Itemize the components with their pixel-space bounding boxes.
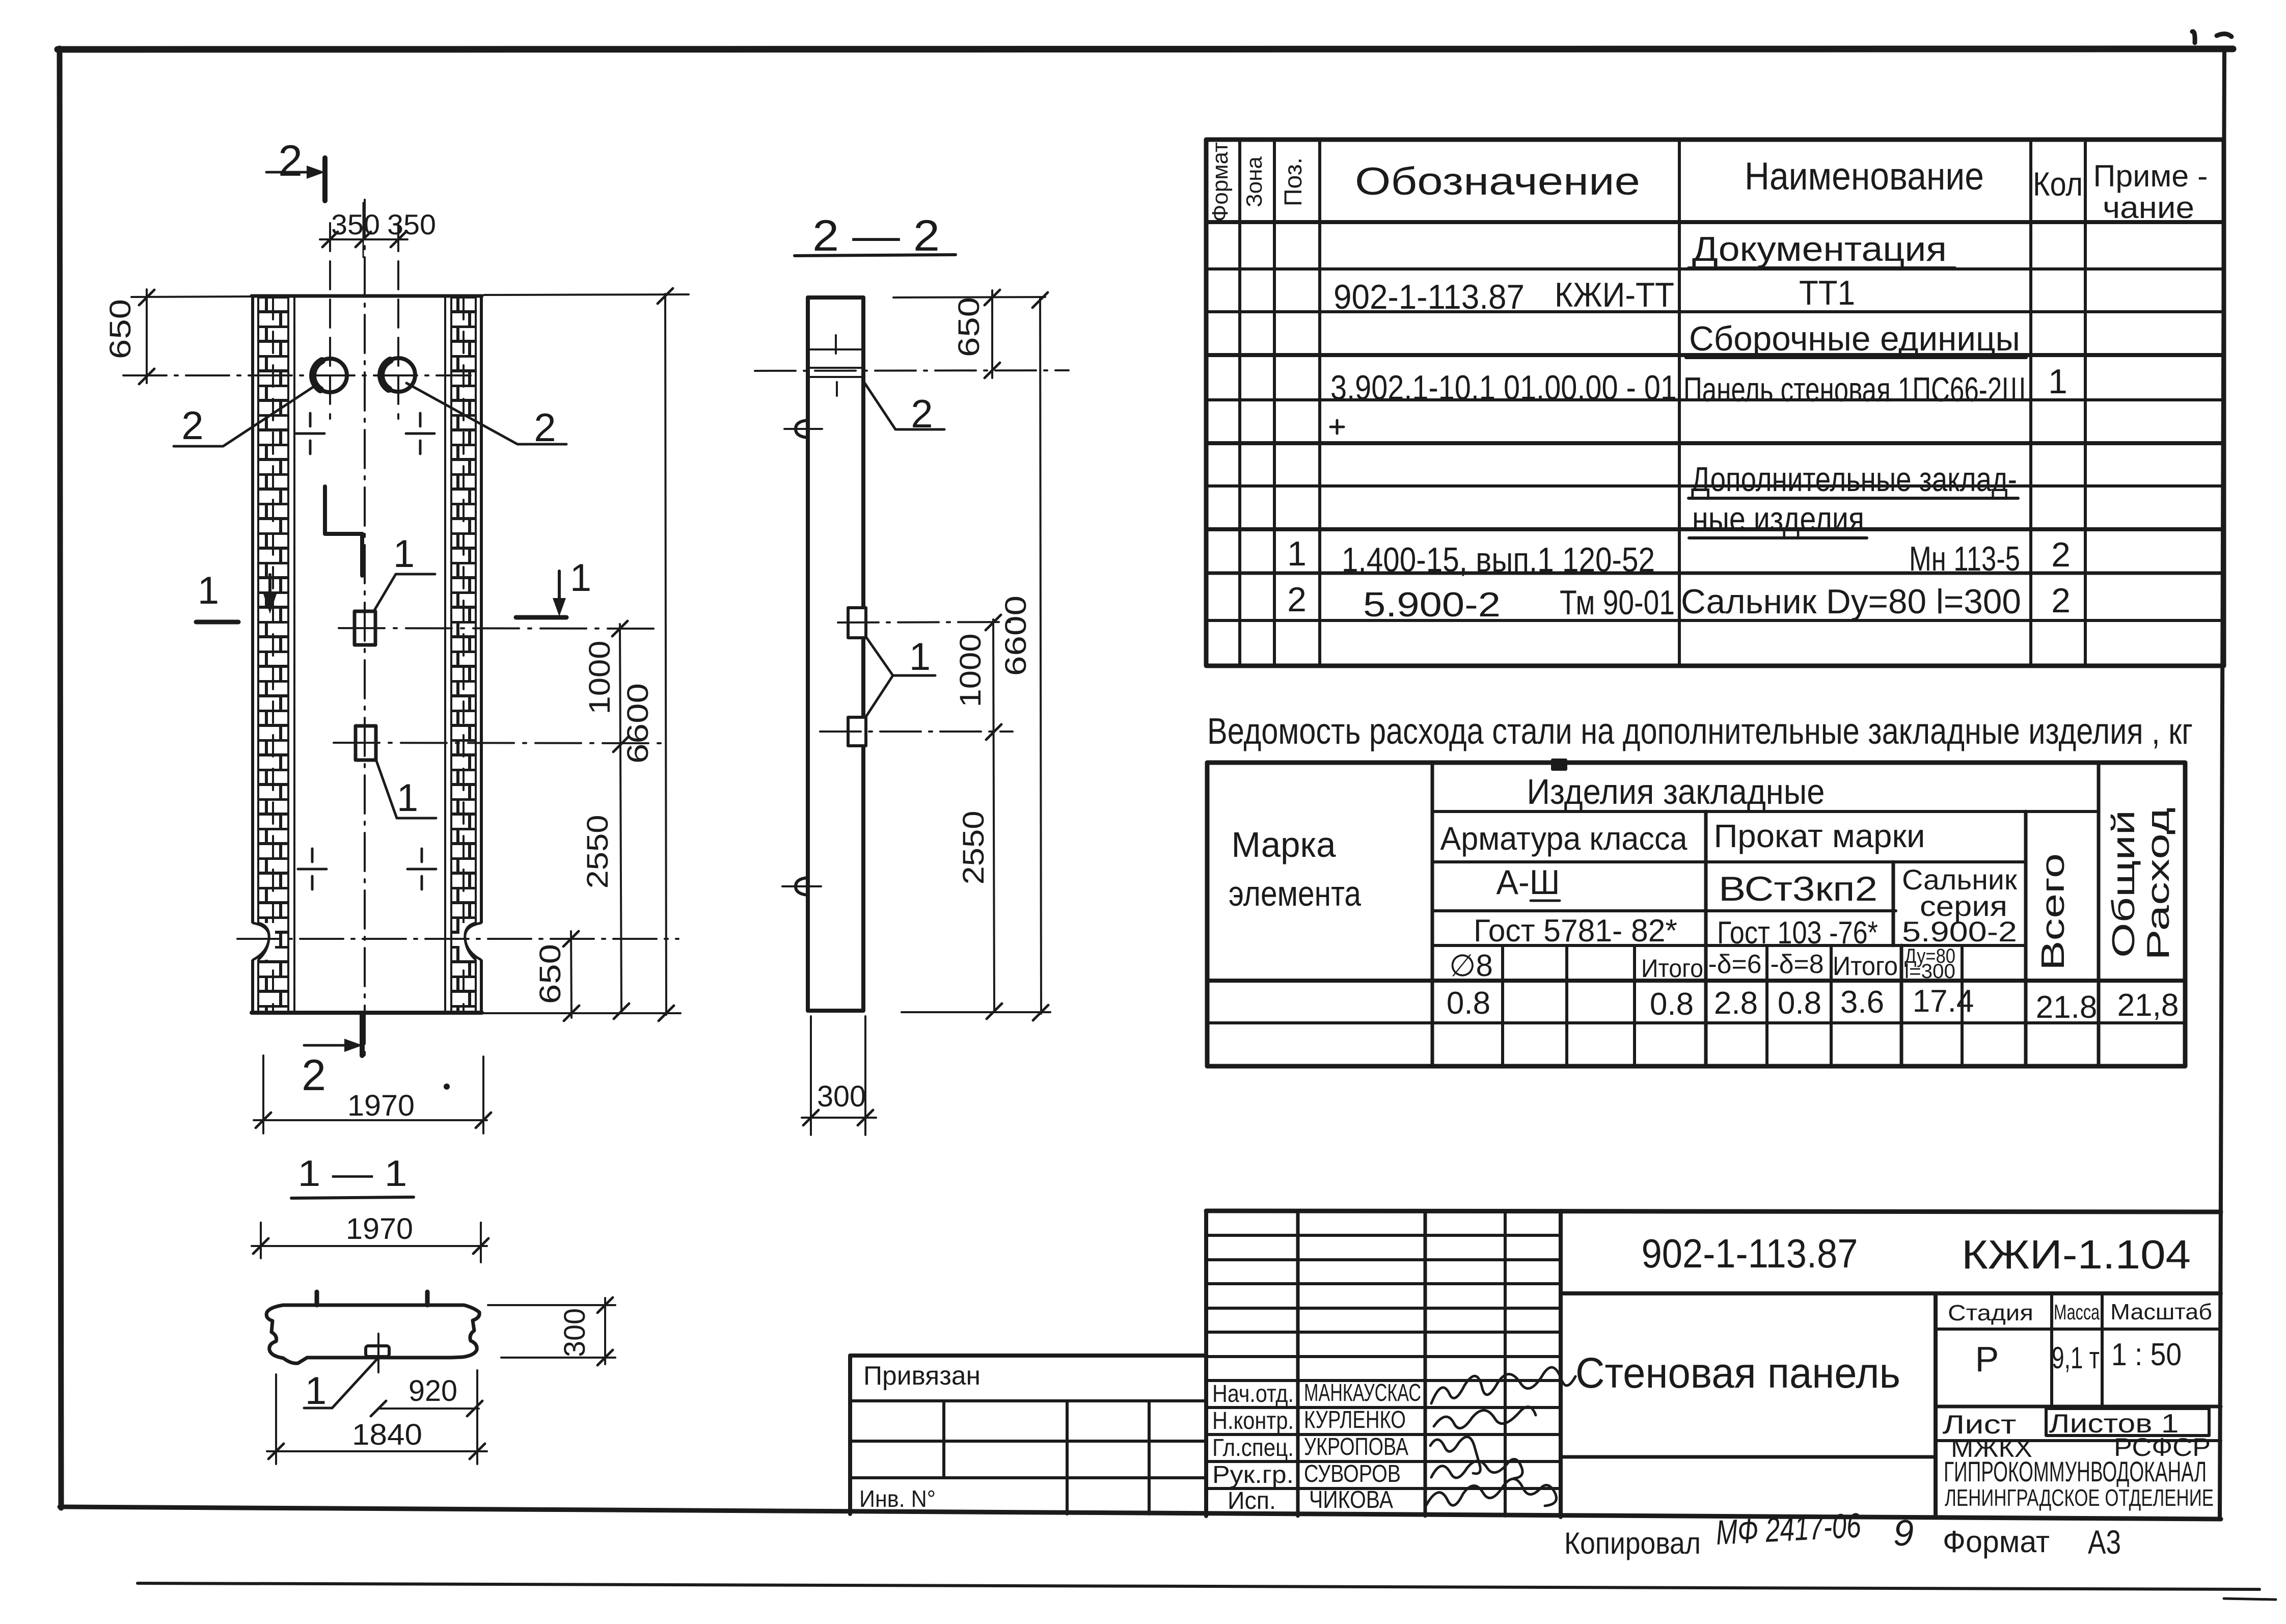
- svg-text:2: 2: [181, 403, 203, 448]
- svg-text:Панель стеновая 1ПС66-2Ш: Панель стеновая 1ПС66-2Ш: [1683, 370, 2026, 409]
- steel col: Сальник box left / Итого-Ду divider: [1893, 862, 1901, 1066]
- svg-text:Масштаб: Масштаб: [2110, 1300, 2212, 1324]
- left rib inner line: [293, 296, 295, 1013]
- left rib notch (white-out): [249, 923, 275, 960]
- svg-text:Расход: Расход: [2141, 807, 2176, 960]
- steel table outer box: [1207, 763, 2185, 1066]
- panel vertical axis (dash-dot): [364, 200, 366, 1059]
- signature Манкаускас: [1431, 1367, 1575, 1403]
- svg-text:9: 9: [1893, 1513, 1914, 1554]
- svg-text:350: 350: [387, 208, 436, 240]
- panel top edge extension to 6600 line: [484, 294, 689, 295]
- svg-text:Р: Р: [1975, 1339, 1999, 1379]
- svg-text:1840: 1840: [352, 1418, 422, 1451]
- left rib line 2: [257, 296, 259, 1013]
- spec table column line: Поз: [1318, 140, 1321, 666]
- 2-2 dim 6600 ticks: [1032, 292, 1048, 1020]
- steel subcol: Итого left: [1633, 945, 1636, 1066]
- svg-text:2550: 2550: [957, 811, 990, 885]
- svg-text:6600: 6600: [999, 596, 1032, 676]
- 2-2 dim 1000/2550 ticks: [986, 615, 1002, 1019]
- 1-1 embed plate: [366, 1346, 389, 1357]
- centre mark lower-right: [407, 849, 436, 889]
- centre mark upper-left: [296, 413, 324, 454]
- svg-text:1: 1: [570, 556, 591, 600]
- svg-text:650: 650: [534, 944, 567, 1004]
- svg-text:ные изделия: ные изделия: [1692, 500, 1864, 538]
- svg-text:1970: 1970: [346, 1212, 413, 1246]
- привязан block outer: [850, 1356, 1206, 1514]
- svg-text:5.900-2: 5.900-2: [1902, 915, 2017, 948]
- dim 1000/2550 ticks: [612, 621, 629, 1019]
- привязан block column b: [1066, 1401, 1069, 1514]
- svg-text:1: 1: [393, 532, 415, 576]
- 1-1 dim 300: extensions: [488, 1305, 615, 1358]
- left rib centre dashed line: [272, 298, 274, 1011]
- right rib line 3: [475, 296, 477, 1013]
- svg-text:5.900-2: 5.900-2: [1363, 585, 1501, 624]
- svg-text:Итого: Итого: [1641, 954, 1703, 983]
- 1-1 dim 1970 ticks: [253, 1238, 488, 1254]
- section 2 marker bottom: bar: [360, 1013, 365, 1055]
- svg-text:Документация: Документация: [1692, 230, 1947, 268]
- svg-text:Сборочные единицы: Сборочные единицы: [1689, 319, 2020, 358]
- dim 650 top-left: vertical line: [146, 289, 148, 383]
- svg-text:чание: чание: [2103, 191, 2194, 225]
- svg-text:1: 1: [1287, 534, 1307, 573]
- 2-2 sleeve ticks: [836, 335, 837, 396]
- svg-text:∅8: ∅8: [1449, 949, 1493, 983]
- right rib notch outline: [465, 923, 481, 960]
- 1-1 dim 300 vertical line: [604, 1298, 606, 1364]
- dim 1000/2550 line (front): [620, 624, 621, 1011]
- svg-text:Формат: Формат: [1943, 1525, 2050, 1559]
- svg-text:МАНКАУСКАС: МАНКАУСКАС: [1304, 1379, 1421, 1406]
- svg-text:КУРЛЕНКО: КУРЛЕНКО: [1304, 1406, 1406, 1433]
- svg-text:-δ=6: -δ=6: [1708, 950, 1762, 979]
- spec table header bottom line: [1206, 220, 2224, 224]
- svg-text:2 — 2: 2 — 2: [812, 211, 940, 260]
- svg-text:Сальник Dу=80 l=300: Сальник Dу=80 l=300: [1681, 582, 2021, 621]
- svg-text:2: 2: [2051, 535, 2071, 574]
- title box: Масса/Масштаб divider: [2101, 1293, 2104, 1406]
- 1-1 dim 1840 left extension: [275, 1374, 277, 1464]
- 2-2 dim 300 ticks: [803, 1110, 873, 1125]
- dim 350 middle extension: [363, 203, 364, 257]
- centre mark lower-left: [298, 849, 326, 889]
- svg-text:1000: 1000: [583, 641, 616, 715]
- steel col: Арматура/Прокат divider: [1704, 811, 1708, 1066]
- 2-2 dim 650 ticks: [985, 290, 1000, 378]
- 2-2 right tab 1: [848, 608, 866, 638]
- svg-text:УКРОПОВА: УКРОПОВА: [1304, 1433, 1408, 1460]
- 1-1 plate centre line: [377, 1334, 379, 1372]
- hole circle left crescent: [313, 361, 322, 390]
- svg-text:Кол: Кол: [2033, 165, 2083, 203]
- svg-text:Гл.спец.: Гл.спец.: [1212, 1434, 1294, 1461]
- signature Укропова: [1430, 1437, 1480, 1474]
- section 2 marker top: bar: [322, 158, 328, 201]
- spec table column line: Обозначение/Наименование: [1678, 140, 1681, 666]
- svg-text:920: 920: [409, 1374, 457, 1408]
- svg-text:Исп.: Исп.: [1228, 1487, 1276, 1514]
- svg-text:Гост 103 -76*: Гост 103 -76*: [1717, 915, 1878, 951]
- dim 1970 ticks: [256, 1113, 491, 1128]
- steel subcol: -δ=8 / Итого divider: [1830, 945, 1833, 1066]
- axis through square 2: [334, 743, 662, 743]
- svg-text:Зона: Зона: [1242, 156, 1267, 207]
- svg-text:Поз.: Поз.: [1280, 157, 1307, 206]
- svg-text:ЧИКОВА: ЧИКОВА: [1309, 1486, 1393, 1513]
- 2-2 lower embed bump: [796, 878, 808, 895]
- 1-1 dim 920 line: [378, 1408, 479, 1410]
- 1-1 dim 1840 ticks: [268, 1444, 485, 1459]
- svg-text:2: 2: [911, 391, 933, 436]
- svg-text:Тм 90-01: Тм 90-01: [1560, 583, 1675, 622]
- svg-text:2.8: 2.8: [1714, 986, 1758, 1021]
- right rib notch (white-out): [459, 923, 485, 960]
- svg-text:350: 350: [331, 208, 380, 240]
- dim 6600 line (front): [665, 294, 666, 1015]
- 2-2 dim 300: extensions: [811, 1016, 865, 1135]
- svg-text:Мн 113-5: Мн 113-5: [1909, 539, 2020, 578]
- signature Чикова: [1426, 1479, 1557, 1506]
- panel bottom extension to 6600 line: [484, 1012, 681, 1014]
- steel subcol: Ø8 right: [1501, 945, 1504, 1066]
- 2-2 bottom extension: [902, 1011, 1050, 1013]
- svg-text:0.8: 0.8: [1447, 986, 1490, 1021]
- heading 1-1 underline: [291, 1197, 414, 1198]
- spec table row line 3: [1206, 353, 2224, 357]
- steel row: below А-III/ВСт3кп2: [1432, 909, 1896, 912]
- spec table column line: Кол/Примечание: [2084, 140, 2087, 666]
- привязан block column a: [942, 1401, 945, 1478]
- title box: Стадия block left: [1934, 1293, 1938, 1517]
- signature Суворов: [1431, 1459, 1522, 1478]
- steel subcol: -δ=6 / -δ=8 divider: [1765, 945, 1768, 1066]
- signature grid right edge / title box left: [1559, 1211, 1563, 1517]
- steel row: below Изделия закладные: [1432, 810, 2099, 813]
- axis through rib notches: [237, 938, 678, 940]
- svg-text:1970: 1970: [347, 1089, 415, 1122]
- svg-text:1: 1: [198, 569, 219, 612]
- svg-text:1: 1: [2048, 362, 2067, 401]
- svg-text:Гост 5781- 82*: Гост 5781- 82*: [1474, 913, 1677, 949]
- right rib line 1: [444, 296, 446, 1013]
- svg-text:Стеновая панель: Стеновая панель: [1575, 1349, 1900, 1397]
- svg-text:300: 300: [817, 1080, 866, 1113]
- spec table row line 9: [1206, 619, 2224, 622]
- svg-text:Приме -: Приме -: [2093, 159, 2208, 193]
- right rib centre dashed line: [462, 298, 465, 1011]
- svg-text:1000: 1000: [954, 634, 987, 708]
- 2-2 upper embed bump: [796, 420, 808, 438]
- title box: Листов 1 box: [2046, 1409, 2209, 1436]
- svg-text:МФ 2417-06: МФ 2417-06: [1715, 1506, 1862, 1552]
- dim 350+350: line: [320, 238, 407, 240]
- 2-2 right tab 2: [848, 717, 866, 746]
- привязан block row line 2: [850, 1440, 1206, 1443]
- svg-text:СУВОРОВ: СУВОРОВ: [1304, 1460, 1401, 1487]
- svg-text:21,8: 21,8: [2117, 988, 2179, 1023]
- svg-text:элемента: элемента: [1229, 874, 1361, 913]
- 1-1 dim 920/1840 right extension: [476, 1370, 478, 1464]
- svg-text:1 : 50: 1 : 50: [2111, 1337, 2182, 1372]
- signature grid col 3: [1504, 1211, 1507, 1516]
- leader square 2: [375, 758, 436, 818]
- hole circle left: [313, 359, 347, 392]
- page frame right border: [2220, 49, 2224, 1519]
- steel subcol: Ду right: [1961, 945, 1964, 1066]
- centre mark upper-right: [406, 413, 434, 454]
- 2-2 leader to sleeve: [863, 381, 944, 429]
- 2-2 dim 650: top extension: [893, 297, 1045, 297]
- leader to left hole: [174, 386, 315, 446]
- svg-text:902-1-113.87: 902-1-113.87: [1333, 278, 1525, 316]
- left rib notch outline: [253, 923, 269, 960]
- bottom right corner mark: [2224, 1599, 2276, 1600]
- 1-1 leader to plate: [304, 1358, 378, 1408]
- svg-text:3.6: 3.6: [1840, 985, 1884, 1020]
- spec table row line 2: [1206, 310, 2224, 313]
- spec table row line 4: [1206, 398, 2224, 401]
- svg-text:ВСт3кп2: ВСт3кп2: [1719, 870, 1877, 908]
- svg-text:Ведомость расхода стали на: Ведомость расхода стали на дополнительны…: [1207, 711, 2193, 752]
- spec table column line: Формат: [1238, 140, 1241, 666]
- svg-text:902-1-113.87: 902-1-113.87: [1642, 1231, 1858, 1276]
- 1-1 dim 1840 line: [267, 1450, 487, 1452]
- steel col: Всего left: [2024, 811, 2028, 1066]
- dim 650 bottom ticks: [563, 931, 579, 1021]
- svg-text:Н.контр.: Н.контр.: [1212, 1408, 1294, 1434]
- page frame top border: [58, 49, 2233, 49]
- привязан block row line 1: [850, 1399, 1206, 1402]
- 1-1 dim 920 ticks: [371, 1401, 482, 1416]
- steel subcol 2: [1565, 945, 1568, 1066]
- svg-text:КЖИ-ТТ: КЖИ-ТТ: [1555, 276, 1674, 314]
- svg-text:0.8: 0.8: [1650, 987, 1694, 1022]
- steel row: below Арматура класса/Прокат марки: [1432, 860, 2026, 863]
- steel col: Марка элемента right: [1431, 763, 1434, 1066]
- svg-text:-δ=8: -δ=8: [1771, 950, 1824, 979]
- svg-text:Итого: Итого: [1833, 952, 1898, 981]
- stray dot: [444, 1084, 450, 1090]
- right hole centre line (dashed vertical): [397, 223, 399, 419]
- svg-text:l=300: l=300: [1904, 960, 1955, 983]
- svg-text:КЖИ-1.104: КЖИ-1.104: [1962, 1232, 2191, 1277]
- section 2 marker top: arrow: [266, 171, 310, 174]
- signature grid name row lines: [1206, 1381, 1561, 1488]
- spec table outer box: [1206, 140, 2224, 666]
- leader to right hole: [406, 383, 566, 444]
- spec table column line: Зона: [1273, 140, 1276, 666]
- svg-text:А3: А3: [2088, 1523, 2121, 1561]
- panel bottom edge: [252, 1011, 482, 1015]
- svg-text:2: 2: [278, 137, 303, 185]
- title box: Стадия/Масса divider: [2050, 1293, 2053, 1406]
- section 1 cut mark right: [516, 615, 566, 620]
- svg-text:Всего: Всего: [2034, 853, 2071, 970]
- svg-text:Марка: Марка: [1232, 825, 1336, 864]
- svg-text:Арматура класса: Арматура класса: [1440, 820, 1688, 857]
- steel row: data row bottom: [1207, 1021, 2185, 1024]
- dim 650 ticks: [139, 290, 154, 384]
- svg-text:300: 300: [558, 1308, 591, 1357]
- svg-text:Копировал: Копировал: [1564, 1526, 1701, 1560]
- leader square 1: [374, 574, 435, 610]
- svg-text:Масса: Масса: [2054, 1300, 2100, 1324]
- title box: line under Р 9,1т 1:50: [1936, 1405, 2221, 1409]
- spec row: stray plus mark: [1330, 420, 1344, 434]
- hole circle right: [382, 358, 415, 392]
- svg-text:ТТ1: ТТ1: [1799, 274, 1855, 312]
- 2-2 axis through tab 2: [820, 730, 1013, 733]
- section 1 cut mark left: [196, 620, 238, 625]
- spec table row line 1: [1206, 267, 2224, 270]
- svg-text:6600: 6600: [621, 683, 655, 764]
- signature grid upper row lines: [1206, 1235, 1561, 1357]
- dim 6600 ticks (front): [658, 288, 674, 1021]
- axis through square 1: [339, 628, 662, 629]
- page frame left border: [60, 48, 61, 1508]
- 1-1 dim 1970: extensions: [261, 1223, 481, 1262]
- svg-text:21.8: 21.8: [2036, 990, 2098, 1025]
- 1-1 lifting tab left: [315, 1292, 319, 1305]
- 2-2 bar outline: [808, 297, 863, 1011]
- left rib hatch band: [258, 297, 288, 1013]
- left rib outer line: [251, 296, 254, 1013]
- svg-text:2: 2: [302, 1051, 326, 1100]
- title box: line under Стеновая панель / Лист: [1561, 1455, 1936, 1459]
- svg-text:9,1 т: 9,1 т: [2052, 1341, 2100, 1375]
- embed plate square 1: [355, 611, 375, 645]
- page frame bottom border: [60, 1507, 2221, 1519]
- svg-text:ЛЕНИНГРАДСКОЕ ОТДЕЛЕНИЕ: ЛЕНИНГРАДСКОЕ ОТДЕЛЕНИЕ: [1945, 1484, 2214, 1511]
- svg-text:2550: 2550: [581, 815, 614, 889]
- 1-1 cross-section outline: [266, 1305, 479, 1363]
- 2-2 dim 650 vertical line: [991, 290, 993, 378]
- steel row: below ГОСТ: [1432, 944, 2026, 947]
- svg-text:650: 650: [953, 297, 986, 357]
- dim 650 top extension: [131, 296, 252, 297]
- svg-text:1: 1: [305, 1369, 326, 1413]
- right rib hatch band: [451, 297, 476, 1013]
- svg-text:Наименование: Наименование: [1745, 155, 1984, 198]
- spec table row line 7: [1206, 527, 2224, 531]
- 2-2 dim 6600 line: [1040, 297, 1041, 1014]
- title block top edge: [1206, 1211, 2221, 1212]
- svg-text:1: 1: [397, 776, 418, 820]
- dim 1970 line: [254, 1119, 487, 1121]
- heading 2-2 underline: [795, 255, 956, 256]
- привязан block row line 3: [850, 1476, 1206, 1479]
- 1-1 lifting tab right: [425, 1292, 430, 1305]
- break step line: [325, 486, 362, 576]
- svg-text:А-Ш: А-Ш: [1496, 863, 1560, 902]
- spec table row line 5: [1206, 441, 2224, 445]
- svg-text:Стадия: Стадия: [1948, 1301, 2033, 1325]
- svg-text:Рук.гр.: Рук.гр.: [1212, 1461, 1294, 1488]
- svg-text:Привязан: Привязан: [863, 1361, 981, 1391]
- svg-text:2: 2: [1287, 580, 1307, 619]
- left rib line 3: [287, 296, 289, 1013]
- svg-text:Формат: Формат: [1208, 142, 1233, 222]
- spec table row line 6: [1206, 484, 2224, 488]
- svg-text:17.4: 17.4: [1913, 984, 1974, 1019]
- right rib line 2: [450, 296, 452, 1013]
- svg-text:Прокат марки: Прокат марки: [1714, 818, 1925, 854]
- svg-text:650: 650: [104, 299, 137, 359]
- hole circle right crescent: [381, 360, 390, 389]
- svg-text:Инв. N°: Инв. N°: [859, 1485, 936, 1512]
- svg-text:3.902.1-10.1 01.00.00 - 01: 3.902.1-10.1 01.00.00 - 01: [1330, 368, 1677, 407]
- top right pen mark: [2192, 32, 2231, 43]
- svg-text:1 — 1: 1 — 1: [298, 1153, 407, 1194]
- 1-1 dim 300 ticks: [597, 1297, 613, 1365]
- signature grid col 1: [1296, 1211, 1300, 1516]
- 1-1 dim 1970 line: [252, 1245, 487, 1247]
- dim 1970 (front bottom): extensions: [263, 1055, 483, 1133]
- svg-text:Обозначение: Обозначение: [1355, 160, 1640, 203]
- spec table column line: Наименование/Кол: [2029, 140, 2032, 666]
- svg-text:Изделия закладные: Изделия закладные: [1527, 772, 1825, 811]
- panel top edge: [252, 294, 482, 298]
- svg-text:1.400-15, вып.1 120-52: 1.400-15, вып.1 120-52: [1342, 540, 1655, 579]
- svg-text:Дополнительные заклад-: Дополнительные заклад-: [1691, 460, 2017, 499]
- right rib outer line: [480, 296, 483, 1013]
- 2-2 axis through tab 1: [838, 622, 1013, 622]
- dim 650 bottom: vertical line: [571, 931, 571, 1018]
- svg-text:0.8: 0.8: [1778, 986, 1821, 1021]
- 2-2 dim 300 line: [802, 1117, 876, 1119]
- svg-text:2: 2: [534, 405, 556, 450]
- title box: Стадия header bottom: [1936, 1328, 2221, 1331]
- title box: line under 902-1-113.87: [1561, 1291, 2221, 1295]
- dim 350 ticks: [322, 232, 406, 247]
- 2-2 sleeve lines: [809, 349, 862, 377]
- embed plate square 2: [356, 726, 376, 760]
- svg-text:ГИПРОКОММУНВОДОКАНАЛ: ГИПРОКОММУНВОДОКАНАЛ: [1944, 1455, 2207, 1487]
- svg-text:Общий: Общий: [2106, 810, 2141, 958]
- 2-2 dim 1000/2550 line: [993, 619, 994, 1012]
- signature grid left edge: [1204, 1211, 1208, 1516]
- signature grid col 2: [1424, 1211, 1427, 1516]
- steel col: Общий расход left: [2097, 763, 2101, 1066]
- spec table row line 8: [1206, 572, 2224, 575]
- section 2 marker bottom: arrow: [304, 1044, 347, 1047]
- привязан block column c: [1148, 1401, 1151, 1514]
- svg-text:Нач.отд.: Нач.отд.: [1212, 1381, 1294, 1408]
- 2-2 horizontal axis at hole level: [755, 370, 1069, 371]
- horizontal axis through holes: [123, 374, 471, 376]
- title box: line under Лист row: [1936, 1439, 2221, 1442]
- signature Курленко: [1434, 1407, 1536, 1428]
- bottom sheet edge line: [138, 1583, 2260, 1589]
- steel table top speck: [1553, 760, 1566, 769]
- left hole centre line (dashed vertical): [329, 223, 331, 419]
- svg-text:2: 2: [2051, 581, 2071, 620]
- 2-2 V leader to tabs: [866, 637, 935, 717]
- steel row: header/data boundary: [1207, 979, 2185, 983]
- svg-text:1: 1: [909, 635, 931, 679]
